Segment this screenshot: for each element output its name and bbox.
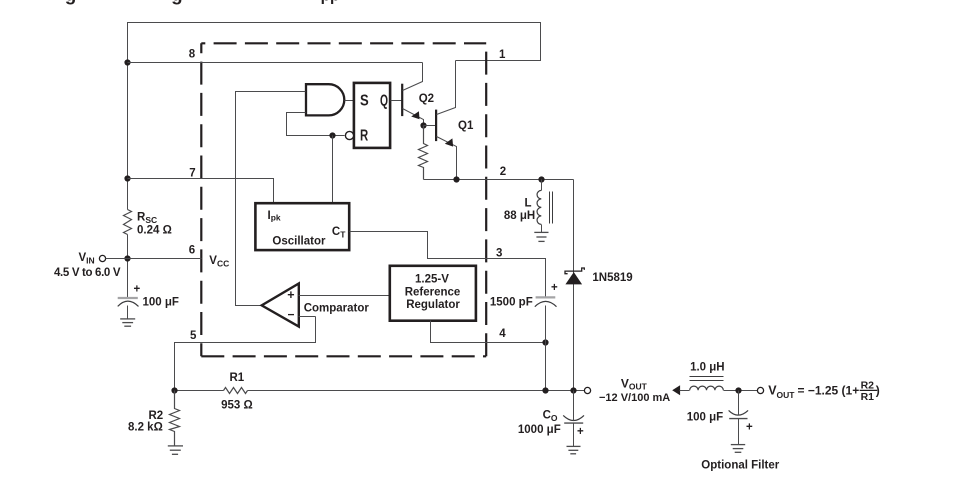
AND gate U1 (306, 84, 344, 115)
svg-text:−12 V/100 mA: −12 V/100 mA (599, 392, 670, 404)
svg-text:4: 4 (499, 328, 506, 340)
svg-text:Optional Filter: Optional Filter (701, 460, 779, 472)
svg-text:): ) (876, 384, 880, 398)
svg-text:5: 5 (190, 330, 197, 342)
svg-text:RSC: RSC (137, 212, 157, 226)
svg-text:VOUT: VOUT (621, 377, 648, 392)
svg-text:R2: R2 (149, 410, 164, 422)
inductor filter 1.0uH (690, 362, 725, 391)
capacitor 1500pF (490, 282, 558, 308)
wire AND input top (comparator feedback) (236, 92, 306, 306)
wire pin4 node to output rail (545, 343, 547, 391)
resistor R1 (224, 388, 248, 394)
wire pin 6 VCC (106, 258, 202, 260)
IC dashed box (201, 43, 486, 356)
wire pin 7 (128, 179, 274, 204)
svg-text:R: R (360, 128, 369, 145)
svg-text:4.5 V to 6.0 V: 4.5 V to 6.0 V (54, 267, 121, 279)
svg-text:Q2: Q2 (419, 93, 434, 105)
svg-text:1000 μF: 1000 μF (518, 424, 561, 436)
svg-text:−: − (288, 308, 295, 322)
node pin7 junction (124, 175, 130, 181)
svg-text:pp: pp (321, 0, 340, 5)
formula VOUT equation (768, 379, 880, 403)
node output diode branch (570, 387, 576, 393)
svg-text:+: + (287, 288, 294, 302)
wire coil to VOUT terminal (724, 390, 758, 392)
wire R node to oscillator (332, 136, 334, 204)
node Q1 emitter (453, 176, 459, 182)
svg-text:1N5819: 1N5819 (592, 272, 632, 284)
svg-text:VOUT: VOUT (768, 384, 795, 401)
transistor Q2 (402, 63, 434, 126)
latch S-R (354, 83, 390, 148)
svg-text:L: L (525, 198, 532, 210)
output rail (175, 390, 224, 392)
node R1 R2 junction (171, 387, 177, 393)
wire AND output to S (345, 100, 354, 102)
svg-text:Regulator: Regulator (406, 299, 460, 311)
ground inductor (534, 232, 548, 241)
ground input cap (120, 319, 135, 326)
svg-text:Q: Q (380, 92, 388, 109)
node Q2 emitter / Q1 base (420, 122, 426, 128)
svg-text:7: 7 (189, 168, 195, 180)
wire CT to pin 3 (350, 232, 546, 298)
wire comparator plus input (299, 295, 390, 297)
node VIN junction (124, 255, 130, 261)
svg-text:CT: CT (332, 226, 346, 239)
ground filter cap (731, 445, 745, 453)
svg-text:+: + (551, 282, 558, 294)
terminal VIN (99, 255, 105, 261)
inductor L 88uH (504, 180, 553, 233)
svg-text:Q1: Q1 (458, 120, 474, 132)
svg-text:g: g (65, 0, 77, 6)
svg-text:100 μF: 100 μF (687, 412, 723, 424)
svg-text:R1: R1 (230, 372, 245, 384)
svg-text:Ipk: Ipk (268, 210, 281, 223)
node inductor tap (538, 176, 544, 182)
svg-text:R2: R2 (861, 379, 875, 391)
wire pin 2 rail (424, 179, 574, 181)
svg-text:6: 6 (189, 245, 195, 257)
optional filter arrow (672, 385, 680, 395)
wire comparator minus input (299, 316, 316, 318)
svg-text:+: + (134, 283, 141, 295)
svg-text:S: S (360, 92, 369, 109)
node output pin4 branch (542, 387, 548, 393)
wire left VIN rail (127, 63, 129, 210)
svg-text:R1: R1 (861, 391, 875, 403)
svg-text:100 μF: 100 μF (143, 297, 179, 309)
svg-text:1.0 μH: 1.0 μH (690, 362, 725, 374)
svg-text:g: g (171, 0, 183, 6)
ground CO (567, 446, 581, 453)
wire CO (573, 391, 575, 421)
capacitor filter 100uF (687, 410, 753, 433)
svg-text:Reference: Reference (405, 286, 461, 298)
svg-text:953 Ω: 953 Ω (221, 400, 253, 412)
node R junction (329, 132, 335, 138)
oscillator block (255, 203, 349, 250)
resistor RSC (124, 210, 132, 235)
svg-text:= −1.25 (1+: = −1.25 (1+ (798, 384, 860, 398)
node pin8 junction (124, 59, 130, 65)
svg-text:1.25-V: 1.25-V (415, 274, 449, 286)
terminal VOUT (584, 387, 590, 393)
wire filter cap (738, 391, 740, 416)
svg-text:8: 8 (189, 49, 196, 61)
svg-text:3: 3 (496, 248, 502, 260)
wire pin 8 (128, 62, 423, 64)
wire pin 5 feedback (175, 317, 316, 391)
wire cap to ground (127, 306, 129, 319)
title (clipped at top edge) (65, 0, 340, 6)
terminal VOUT filtered (757, 387, 763, 393)
svg-text:+: + (746, 422, 753, 434)
svg-text:2: 2 (500, 166, 506, 178)
resistor Q2 emitter (419, 126, 428, 180)
wire 1500pF to pin4 node (545, 306, 547, 343)
svg-text:Comparator: Comparator (304, 302, 370, 314)
wire Q to Q2 base (391, 100, 402, 102)
svg-text:0.24 Ω: 0.24 Ω (137, 224, 172, 236)
wire arrow to coil (680, 390, 690, 392)
svg-text:Oscillator: Oscillator (272, 235, 326, 247)
svg-text:8.2 kΩ: 8.2 kΩ (128, 422, 163, 434)
wire RSC to VIN node (127, 235, 129, 298)
R input bubble (345, 131, 353, 139)
reference regulator block (390, 266, 476, 321)
transistor Q1 (424, 61, 474, 180)
wire pin 4 from regulator (431, 321, 546, 343)
wire AND input bottom (from R node) (287, 113, 345, 136)
capacitor CO (518, 410, 584, 439)
ground R2 (168, 446, 183, 454)
diode 1N5819 (565, 180, 633, 391)
node filter cap junction (735, 387, 741, 393)
svg-text:1: 1 (499, 49, 506, 61)
node pin4 capacitor junction (542, 339, 548, 345)
svg-text:VCC: VCC (209, 255, 229, 269)
wire R1 to output node (248, 390, 585, 392)
wire top rail VIN to pin 1 (128, 23, 541, 63)
resistor R2 (170, 391, 180, 446)
comparator (262, 284, 299, 327)
svg-text:+: + (577, 426, 584, 438)
capacitor 100uF input (118, 283, 179, 308)
svg-text:CO: CO (543, 410, 558, 424)
svg-text:88 μH: 88 μH (504, 210, 535, 222)
svg-text:VIN: VIN (79, 252, 95, 266)
svg-text:1500 pF: 1500 pF (490, 296, 533, 308)
